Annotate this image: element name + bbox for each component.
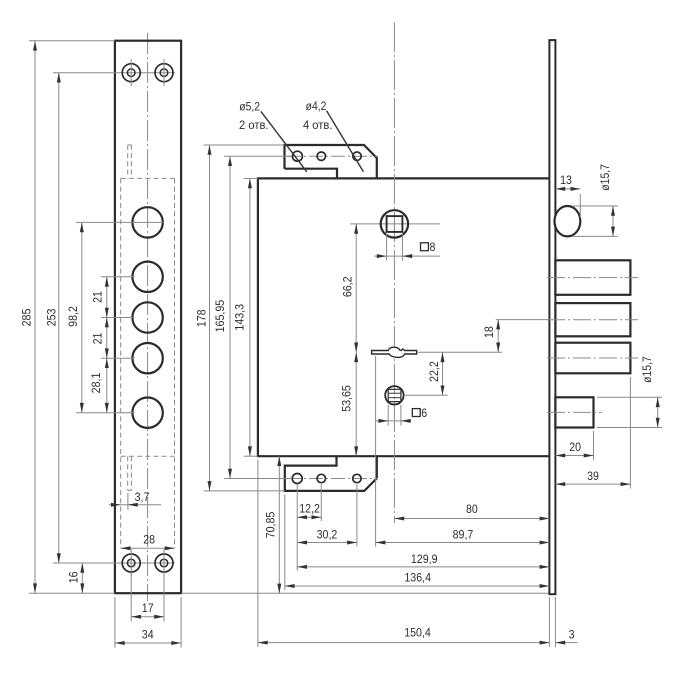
dimension 89,7 (376, 528, 550, 545)
svg-text:150,4: 150,4 (404, 625, 431, 639)
svg-text:89,7: 89,7 (453, 528, 474, 542)
dimension 80 (394, 502, 549, 520)
hidden bottom tab slot (dashed) (128, 456, 132, 490)
bottom tab hole 1 (ø5,2) (292, 474, 302, 484)
square 6 axis (405, 394, 448, 396)
svg-text:22,2: 22,2 (427, 361, 441, 382)
dimension 20 (555, 431, 593, 460)
svg-text:253: 253 (45, 308, 59, 326)
dimension 34 (115, 597, 181, 648)
svg-text:34: 34 (142, 628, 154, 642)
top tab holes axis (287, 155, 378, 157)
svg-text:18: 18 (482, 326, 496, 338)
svg-text:3: 3 (569, 627, 575, 641)
lower bolt (555, 397, 593, 427)
deadbolt 3 axis (547, 357, 638, 359)
faceplate strip side view (549, 40, 555, 594)
deadbolt 2 axis (547, 319, 638, 321)
deadbolt 2 (555, 303, 630, 336)
svg-text:8: 8 (429, 240, 435, 254)
screw hole bottom-right (155, 550, 173, 577)
dimension 18 (482, 320, 550, 353)
dimension 165,95 (213, 156, 292, 478)
faceplate center line (147, 33, 149, 601)
dimension 98,2 (66, 222, 84, 412)
dimension ø15,7 lower bolt (597, 356, 662, 427)
svg-text:21: 21 (91, 291, 105, 303)
square hole 8 (387, 216, 403, 232)
leader ø4,2 (327, 111, 364, 172)
svg-text:21: 21 (91, 332, 105, 344)
svg-text:ø4,2: ø4,2 (306, 99, 327, 113)
faceplate hole 3 (132, 302, 162, 332)
key lever axis (418, 351, 502, 353)
dimension square 8 (374, 234, 440, 261)
faceplate hole 4 (132, 343, 162, 373)
leader ø5,2 (261, 111, 307, 172)
dimension 12,2 (297, 502, 321, 520)
svg-text:13: 13 (560, 173, 572, 187)
faceplate hole 5 (132, 398, 162, 428)
hidden top tab slot (dashed) (128, 145, 132, 179)
hub axis horizontal (350, 223, 440, 225)
dimension 28 (121, 533, 175, 551)
svg-text:12,2: 12,2 (299, 502, 320, 516)
deadbolt 3 (555, 343, 630, 374)
dimension 178 (195, 145, 285, 491)
dimension square 6 (375, 405, 427, 426)
faceplate hole 2 (132, 262, 162, 292)
top mounting tab (285, 145, 377, 178)
svg-text:4 отв.: 4 отв. (303, 118, 333, 132)
hole 2 axis (101, 276, 135, 278)
svg-text:178: 178 (195, 309, 209, 327)
svg-text:285: 285 (20, 308, 34, 326)
hole 4 axis (101, 357, 135, 359)
svg-text:20: 20 (569, 440, 581, 454)
dimension 13 (555, 173, 580, 218)
svg-text:165,95: 165,95 (213, 300, 227, 333)
svg-text:3,7: 3,7 (135, 490, 150, 504)
screw holes axis bottom (53, 562, 175, 564)
svg-text:28: 28 (143, 533, 155, 547)
hole 5 axis (76, 412, 135, 414)
dimension 53,65 (340, 352, 359, 456)
top tab hole 1 (ø5,2) (292, 151, 302, 161)
dimension ø15,7 latch (572, 164, 618, 237)
bottom tab holes axis (287, 478, 378, 480)
dimension 39 (555, 377, 630, 489)
screw hole top-left (122, 59, 140, 86)
extension lines bottom chain (258, 356, 556, 647)
spindle hub (381, 210, 408, 237)
dimension 22,2 (427, 352, 444, 395)
bottom mounting tab (285, 456, 377, 491)
screw holes axis top (53, 72, 175, 74)
dimension 253 (45, 73, 61, 563)
deadbolt 1 axis (547, 277, 638, 279)
bottom tab hole 2 (ø4,2) (317, 474, 325, 482)
dimension 143,3 (233, 178, 258, 456)
top tab hole 3 (ø4,2) (353, 152, 361, 160)
dimension 3 (555, 627, 577, 644)
faceplate outline (115, 41, 181, 594)
dimension 66,2 (340, 224, 358, 352)
lock body outline (258, 178, 550, 456)
dimension 129,9 (297, 552, 549, 569)
svg-text:70,85: 70,85 (264, 511, 278, 538)
svg-text:ø5,2: ø5,2 (239, 99, 260, 113)
baseline extension (29, 592, 549, 594)
svg-text:98,2: 98,2 (66, 306, 80, 327)
svg-text:66,2: 66,2 (340, 276, 354, 297)
key bit lever (372, 347, 417, 357)
dimension 285 (20, 41, 115, 594)
svg-text:28,1: 28,1 (89, 372, 103, 393)
svg-text:80: 80 (466, 502, 478, 516)
dimension 16 (67, 563, 85, 593)
svg-text:ø15,7: ø15,7 (598, 164, 612, 191)
dimension 3,7 (109, 490, 161, 510)
body center line (vertical) (393, 22, 395, 523)
label ø5,2 2 otv (239, 99, 269, 132)
top tab hole 2 (ø4,2) (317, 152, 325, 160)
svg-text:2 отв.: 2 отв. (239, 118, 269, 132)
svg-text:17: 17 (142, 601, 154, 615)
dimension 150,4 (258, 625, 550, 644)
svg-text:ø15,7: ø15,7 (640, 356, 654, 383)
latch bolt (555, 206, 581, 236)
dimension 70,85 (264, 456, 282, 593)
deadbolt 1 (555, 260, 630, 295)
label ø4,2 4 otv (303, 99, 333, 132)
screw hole bottom-left (122, 550, 140, 577)
faceplate hole 1 (132, 207, 162, 237)
svg-text:30,2: 30,2 (317, 528, 338, 542)
dimension 136,4 (285, 571, 550, 589)
svg-text:16: 16 (67, 571, 81, 583)
hole 1 axis (76, 221, 164, 223)
hole 3 axis (101, 317, 135, 319)
svg-text:39: 39 (587, 469, 599, 483)
svg-text:136,4: 136,4 (404, 571, 431, 585)
screw hole top-right (155, 59, 173, 86)
square hole 6 (385, 386, 403, 404)
dimension 30,2 (297, 528, 357, 545)
dimension 17 (131, 573, 164, 622)
lower bolt axis (547, 411, 602, 413)
svg-text:53,65: 53,65 (340, 385, 354, 412)
svg-text:6: 6 (421, 406, 427, 420)
svg-text:129,9: 129,9 (411, 552, 438, 566)
bottom tab hole 3 (ø4,2) (353, 474, 361, 482)
svg-text:143,3: 143,3 (233, 304, 247, 331)
dimension chain 21/21/28,1 (89, 277, 109, 413)
hidden lock body outline (dashed) (121, 178, 175, 548)
